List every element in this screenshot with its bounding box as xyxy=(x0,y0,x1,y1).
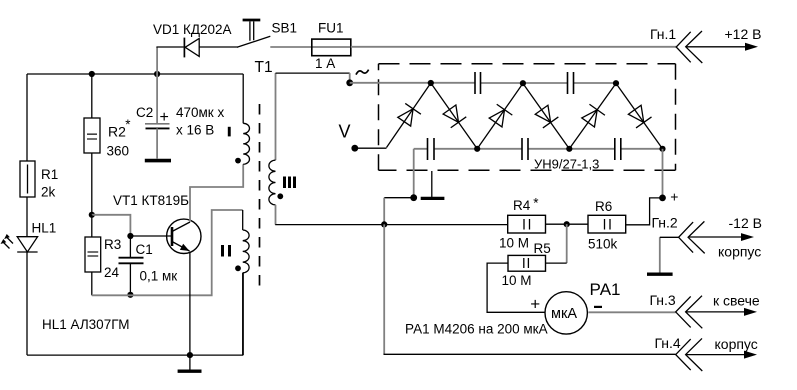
node junction R2/R3/base xyxy=(89,212,95,218)
svg-text:510k: 510k xyxy=(588,237,618,252)
svg-text:2k: 2k xyxy=(41,185,56,200)
resistor R4 xyxy=(499,196,546,251)
wire корпус arrow Гн.4 xyxy=(686,336,758,359)
svg-text:РА1 М4206 на 200 мкА: РА1 М4206 на 200 мкА xyxy=(405,322,548,337)
connector Гн.1 xyxy=(650,26,702,63)
wire rail to winding I xyxy=(242,74,244,123)
node top 1 xyxy=(428,80,434,86)
connector Гн.4 xyxy=(655,335,703,371)
svg-text:Гн.4: Гн.4 xyxy=(655,335,681,351)
node junction C1/feedback rail xyxy=(127,292,133,298)
wire FU1 to Гн.1 xyxy=(351,46,676,48)
wire multiplier top rail xyxy=(350,82,616,84)
svg-text:1 А: 1 А xyxy=(315,56,335,71)
svg-text:*: * xyxy=(125,117,131,132)
svg-text:C2: C2 xyxy=(136,105,153,120)
svg-text:T1: T1 xyxy=(255,59,273,76)
wire R6 to + node xyxy=(626,198,663,225)
wire top rail +12V internal y=74 xyxy=(27,73,243,75)
wire к свече arrow xyxy=(686,293,760,316)
svg-text:470мк х: 470мк х xyxy=(176,105,224,120)
label ~ xyxy=(356,70,369,75)
transistor VT1 xyxy=(113,193,201,254)
resistor R3 xyxy=(85,237,121,280)
wire winding III bottom to R4 xyxy=(275,224,508,226)
ground (multiplier case) xyxy=(421,171,445,198)
wire to VD1 xyxy=(156,46,183,48)
wire base xyxy=(130,235,171,237)
fuse FU1 xyxy=(312,21,351,72)
winding III xyxy=(269,73,296,225)
svg-text:R1: R1 xyxy=(41,167,58,182)
node corner dot xyxy=(410,194,417,201)
wire VD1 to SB1 xyxy=(199,46,238,48)
winding I xyxy=(228,123,250,164)
wire HL1 to bottom rail xyxy=(26,252,28,355)
node bottom 1 xyxy=(474,146,480,152)
switch SB1 xyxy=(237,20,297,47)
wire PA1 to Гн.3 xyxy=(588,311,675,313)
svg-text:х 16 В: х 16 В xyxy=(176,123,214,138)
svg-text:HL1 АЛ307ГМ: HL1 АЛ307ГМ xyxy=(42,317,129,332)
ground (Гн.2) xyxy=(647,237,673,274)
diode D1 xyxy=(387,83,431,148)
diode D5 xyxy=(569,83,616,148)
wire ground to Гн.2 xyxy=(660,236,679,238)
wire VD1 branch riser xyxy=(156,47,158,74)
resistor R6 xyxy=(588,199,626,252)
svg-text:+: + xyxy=(160,109,169,126)
capacitor top row 1 xyxy=(475,72,481,94)
svg-text:FU1: FU1 xyxy=(318,21,344,36)
wire collector riser xyxy=(190,164,243,222)
svg-text:Гн.2: Гн.2 xyxy=(652,215,678,231)
wire multiplier bottom rail xyxy=(414,148,663,150)
diode D3 xyxy=(477,83,523,148)
wire node to R6 xyxy=(567,223,588,225)
svg-text:R5: R5 xyxy=(534,241,551,256)
svg-text:HL1: HL1 xyxy=(32,221,57,236)
connector Гн.2 xyxy=(652,215,705,254)
svg-text:R6: R6 xyxy=(595,199,612,214)
node junction rail/C2/VD1 xyxy=(154,71,160,77)
svg-text:+: + xyxy=(670,188,678,204)
wire V to diode chain xyxy=(355,147,387,149)
resistor R5 xyxy=(502,241,551,288)
capacitor bottom row 2 xyxy=(522,138,528,160)
multiplier box dashed УН9/27 xyxy=(379,63,676,65)
svg-text:УН9/27-1,3: УН9/27-1,3 xyxy=(534,156,599,171)
svg-text:+12 В: +12 В xyxy=(725,26,762,42)
svg-text:SB1: SB1 xyxy=(272,21,298,36)
ground (emitter) xyxy=(178,355,202,371)
wire left branch top (rail to R1) xyxy=(26,74,28,161)
node bottom 3 xyxy=(659,146,665,152)
diode VD1 xyxy=(153,22,232,57)
svg-text:корпус: корпус xyxy=(718,244,761,260)
svg-text:мкА: мкА xyxy=(551,306,577,322)
svg-text:C1: C1 xyxy=(136,242,153,257)
svg-text:0,1 мк: 0,1 мк xyxy=(140,269,178,284)
resistor R1 xyxy=(20,161,58,200)
wire left riser to Гн.4 xyxy=(383,224,385,354)
wire bottom rail xyxy=(27,354,243,356)
svg-text:Гн.3: Гн.3 xyxy=(650,292,676,308)
node terminal ~ xyxy=(346,79,353,86)
capacitor C1 xyxy=(119,236,178,295)
capacitor C2 xyxy=(136,74,224,159)
svg-text:VT1 КТ819Б: VT1 КТ819Б xyxy=(113,193,189,208)
wire feedback rail to winding II xyxy=(92,210,243,295)
wire winding II bottom joins bottom rail xyxy=(242,273,244,355)
wire -12 В arrow xyxy=(689,215,762,260)
svg-text:-12 В: -12 В xyxy=(729,215,762,231)
svg-text:*: * xyxy=(533,196,539,211)
wire leg to left riser xyxy=(384,197,414,199)
diode D2 xyxy=(431,83,477,149)
svg-text:Гн.1: Гн.1 xyxy=(650,26,676,42)
svg-text:РА1: РА1 xyxy=(590,280,621,299)
svg-text:10 М: 10 М xyxy=(502,273,532,288)
node junction base/C1 xyxy=(127,233,133,239)
capacitor bottom row 3 xyxy=(615,138,621,160)
wire R4 to node xyxy=(546,223,567,225)
winding II xyxy=(221,210,249,355)
node terminal V xyxy=(351,145,358,152)
wire R5 left to PA1 xyxy=(487,263,545,312)
node junction rail/R2 xyxy=(89,71,95,77)
node terminal + xyxy=(659,195,666,202)
resistor R2 xyxy=(84,117,131,159)
wire +12 В arrow xyxy=(686,26,761,51)
capacitor bottom row 1 xyxy=(428,138,435,160)
wire R2 to base node xyxy=(91,153,93,215)
diode D6 xyxy=(616,83,663,148)
node bottom 2 xyxy=(566,146,572,152)
node junction winding III / R4 row xyxy=(381,221,387,227)
svg-text:+: + xyxy=(530,295,540,314)
svg-text:24: 24 xyxy=(104,265,120,280)
wire R2 node to R3 xyxy=(91,215,93,237)
wire R5 right xyxy=(546,262,567,264)
wire rail to R2 xyxy=(91,74,93,118)
node top 2 xyxy=(520,80,526,86)
ground (C2 bar) xyxy=(145,159,171,163)
wire multiplier bottom-left leg xyxy=(413,149,415,198)
svg-text:360: 360 xyxy=(107,144,130,159)
node junction R4/R6/R5 xyxy=(564,221,570,227)
node top 3 xyxy=(613,80,619,86)
wire R5 riser xyxy=(566,224,568,263)
svg-text:VD1 КД202А: VD1 КД202А xyxy=(153,22,232,37)
svg-text:R3: R3 xyxy=(104,237,121,252)
wire base node to C1 node xyxy=(92,215,131,236)
svg-text:R4: R4 xyxy=(513,198,531,213)
svg-text:корпус: корпус xyxy=(715,336,758,352)
node junction emitter/bottom rail xyxy=(187,352,193,358)
wire R3 to feedback rail xyxy=(91,272,93,295)
svg-text:R2: R2 xyxy=(108,124,126,140)
wire SB1 to FU1 xyxy=(270,46,312,48)
wire winding III top to multiplier xyxy=(276,72,350,74)
diode D4 xyxy=(523,83,569,148)
wire multiplier output down xyxy=(662,149,664,198)
capacitor top row 2 xyxy=(568,72,574,94)
meter PA1 xyxy=(530,280,620,334)
svg-text:V: V xyxy=(339,122,351,142)
wire emitter xyxy=(189,252,191,356)
connector Гн.3 xyxy=(650,292,703,328)
wire R1 to HL1 xyxy=(26,197,28,237)
svg-text:к свече: к свече xyxy=(713,293,760,309)
LED HL1 xyxy=(1,221,57,253)
core T1 dashed xyxy=(259,104,261,287)
svg-text:10 М: 10 М xyxy=(499,236,529,251)
